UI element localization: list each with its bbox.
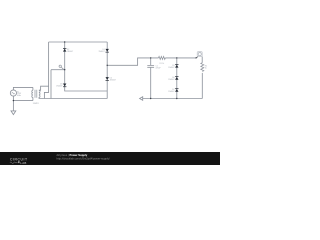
svg-text:1N4007: 1N4007: [67, 51, 73, 53]
svg-text:1N4007: 1N4007: [99, 51, 105, 53]
svg-text:dirtyzeus | Power Supply: dirtyzeus | Power Supply: [57, 153, 88, 157]
svg-text:LAB: LAB: [20, 161, 26, 165]
svg-text:http://circuitlab.com/c/5m2pd4: http://circuitlab.com/c/5m2pd4/power-sup…: [57, 157, 110, 161]
svg-text:1N4007: 1N4007: [168, 91, 174, 93]
svg-text:1N4007: 1N4007: [110, 79, 116, 81]
svg-text:R1 1k: R1 1k: [160, 63, 165, 65]
svg-text:470uF: 470uF: [156, 67, 162, 69]
svg-text:1N4007: 1N4007: [56, 86, 62, 88]
svg-text:1N4007: 1N4007: [168, 79, 174, 81]
svg-text:1k: 1k: [205, 68, 207, 70]
svg-text:XFMR1: XFMR1: [33, 103, 39, 105]
svg-text:60Hz: 60Hz: [17, 95, 21, 97]
svg-text:1N4007: 1N4007: [168, 67, 174, 69]
